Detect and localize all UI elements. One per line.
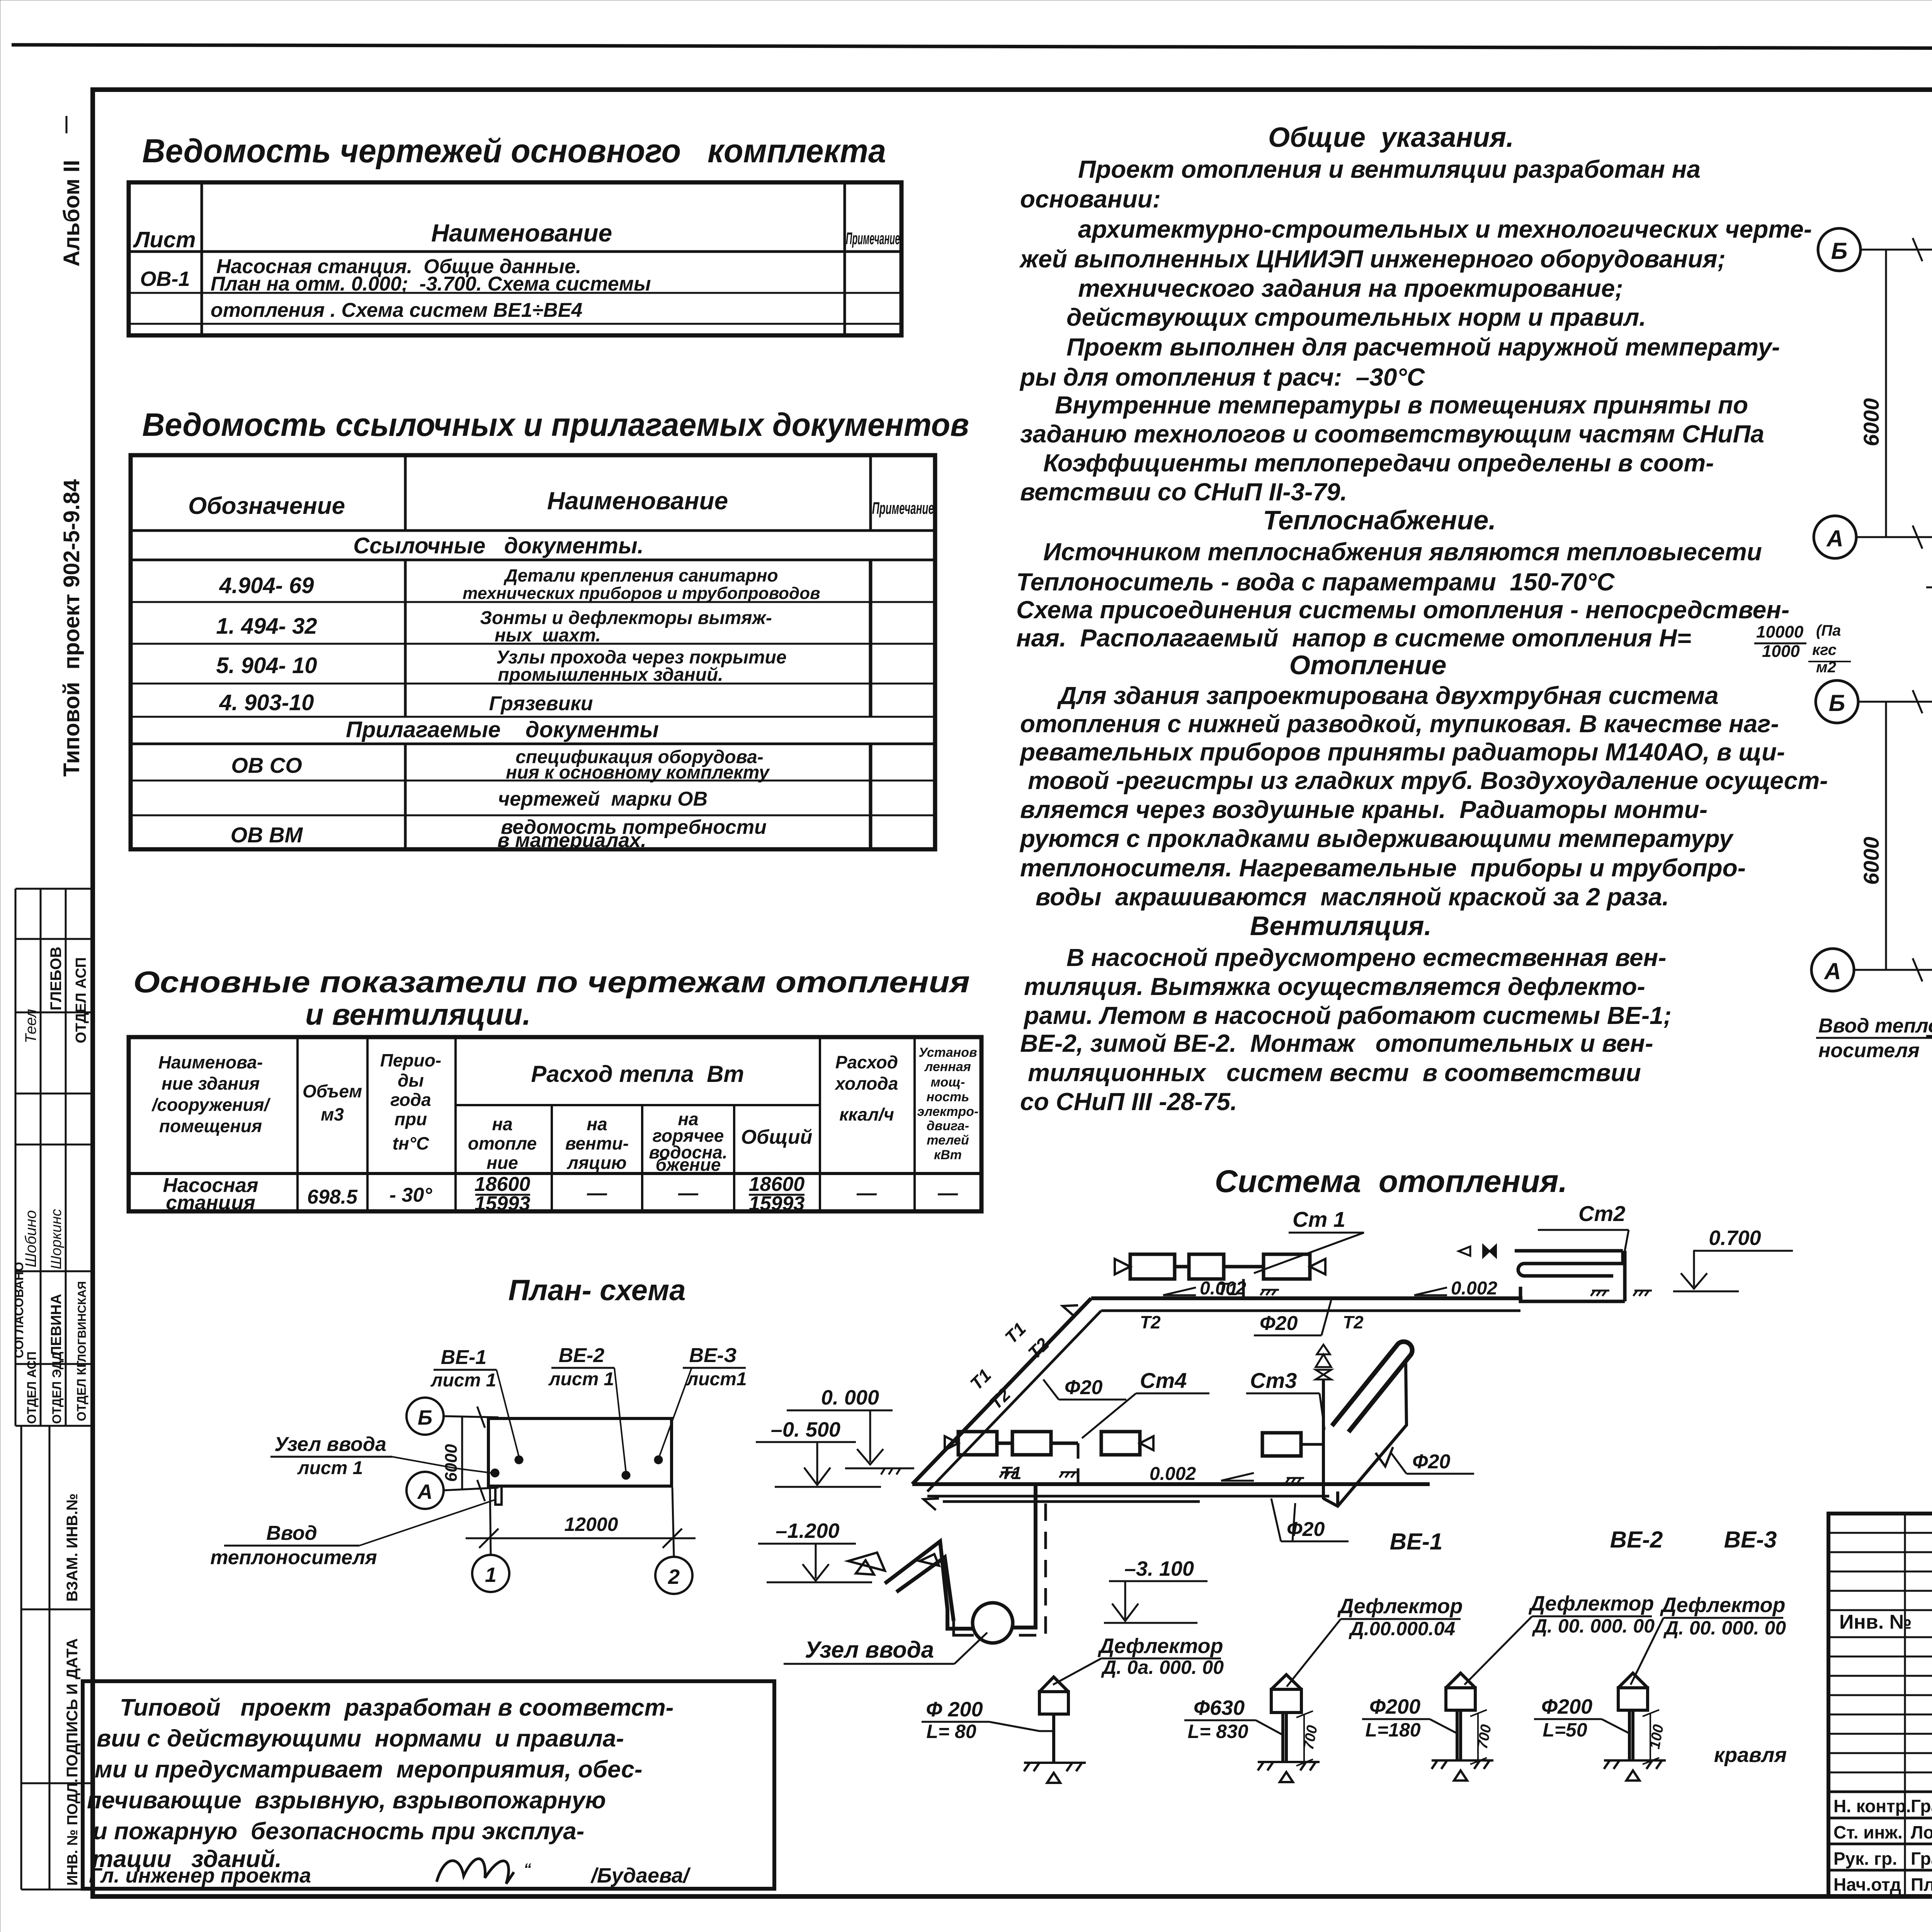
svg-text:Расход: Расход (835, 1052, 898, 1072)
svg-text:Дефлектор: Дефлектор (1097, 1634, 1223, 1658)
svg-text:Установ: Установ (918, 1045, 977, 1060)
plan2 axis A (1811, 949, 1854, 991)
svg-text:Проект отопления и вентиляции: Проект отопления и вентиляции разработан… (1078, 155, 1701, 183)
plan-skhema vvod entry mark (495, 1486, 502, 1505)
svg-text:ми и предусматривает мероприя: ми и предусматривает мероприятия, обес- (95, 1756, 643, 1783)
svg-text:А: А (1823, 958, 1841, 984)
signature rows (1833, 1796, 1932, 1895)
svg-text:6000: 6000 (1859, 398, 1883, 446)
svg-text:тиляционных систем вести в: тиляционных систем вести в соответствии (1028, 1059, 1641, 1087)
svg-text:года: года (390, 1090, 431, 1110)
axon: gate valve symbols on entry (848, 1553, 885, 1571)
svg-text:промышленных зданий.: промышленных зданий. (498, 665, 723, 685)
svg-text:холода: холода (834, 1073, 898, 1094)
svg-text:Т1: Т1 (966, 1365, 995, 1394)
svg-text:лист1: лист1 (686, 1369, 747, 1389)
svg-text:Теел: Теел (22, 1009, 39, 1043)
left margin stamp table (15, 889, 93, 1426)
svg-text:Шобино: Шобино (22, 1210, 39, 1267)
svg-text:Ф20: Ф20 (1065, 1376, 1103, 1399)
svg-text:6000: 6000 (1859, 837, 1883, 885)
svg-text:носителя: носителя (1818, 1039, 1920, 1062)
svg-text:L=50: L=50 (1543, 1719, 1587, 1741)
svg-text:кравля: кравля (1714, 1743, 1787, 1767)
svg-text:План на отм. 0.000; -3.700. С: План на отм. 0.000; -3.700. Схема систем… (211, 273, 651, 295)
svg-text:Основные показатели по чертежа: Основные показатели по чертежам отоплени… (133, 965, 970, 999)
svg-text:станция: станция (166, 1192, 255, 1214)
left margin bottom cells (21, 1426, 93, 1889)
svg-text:м3: м3 (321, 1104, 344, 1124)
svg-text:А: А (1826, 526, 1843, 551)
svg-text:—: — (678, 1182, 699, 1204)
svg-text:Наименование: Наименование (431, 219, 612, 247)
svg-text:Детали крепления санитарно: Детали крепления санитарно (503, 565, 778, 585)
svg-text:15993: 15993 (749, 1192, 805, 1215)
svg-text:ВЕ-2, зимой ВЕ-2. Монтаж от: ВЕ-2, зимой ВЕ-2. Монтаж отопительных и … (1020, 1029, 1653, 1057)
svg-text:Наименова-: Наименова- (158, 1052, 263, 1072)
axon: main diagonal T1 T2 down-left (912, 1298, 1091, 1484)
svg-text:вляется через воздушные краны.: вляется через воздушные краны. Радиаторы… (1020, 796, 1708, 823)
svg-text:лист 1: лист 1 (430, 1370, 497, 1391)
svg-text:5. 904- 10: 5. 904- 10 (216, 653, 317, 678)
svg-text:технического задания на проект: технического задания на проектирование; (1078, 274, 1623, 302)
svg-text:в материалах.: в материалах. (497, 829, 646, 852)
svg-text:электро-: электро- (917, 1104, 979, 1119)
plan1 axis A circle (1814, 516, 1856, 558)
svg-text:ОВ-1: ОВ-1 (140, 267, 190, 291)
axon: ground hatches at St2 (1591, 1291, 1652, 1296)
svg-text:ОТДЕЛ ЭДД: ОТДЕЛ ЭДД (50, 1352, 64, 1424)
svg-text:товой -регистры из гладких тру: товой -регистры из гладких труб. Воздухо… (1028, 767, 1828, 794)
svg-text:Источником теплоснабжения явля: Источником теплоснабжения являются тепло… (1043, 538, 1762, 566)
axon: upper T1 T2 mains (1091, 1296, 1522, 1300)
sheet top edge line (12, 45, 1932, 49)
svg-text:ПОДПИСЬ И ДАТА: ПОДПИСЬ И ДАТА (64, 1638, 81, 1777)
svg-text:лист 1: лист 1 (548, 1369, 614, 1389)
svg-text:Н. контр.: Н. контр. (1833, 1796, 1911, 1816)
svg-text:Ф200: Ф200 (1541, 1695, 1592, 1718)
svg-text:698.5: 698.5 (307, 1186, 358, 1208)
svg-text:Т2: Т2 (1024, 1334, 1053, 1363)
plan-skhema axis 2 (655, 1557, 692, 1594)
svg-text:лист 1: лист 1 (297, 1458, 363, 1478)
svg-text:при: при (395, 1109, 427, 1129)
svg-text:на: на (492, 1114, 512, 1134)
plan-skhema axis B (406, 1398, 444, 1435)
svg-text:Ст2: Ст2 (1578, 1201, 1625, 1226)
svg-text:4. 903-10: 4. 903-10 (219, 690, 314, 715)
svg-text:Прилагаемые документы: Прилагаемые документы (346, 717, 659, 742)
svg-text:(Па: (Па (1816, 622, 1841, 639)
svg-text:ность: ность (927, 1090, 969, 1104)
svg-text:двига-: двига- (927, 1119, 969, 1133)
svg-text:ОТДЕЛ АСП: ОТДЕЛ АСП (25, 1351, 39, 1424)
svg-text:0.002: 0.002 (1200, 1278, 1246, 1299)
svg-text:Альбом II: Альбом II (59, 160, 84, 267)
svg-text:Внутренние температуры в помещ: Внутренние температуры в помещениях прин… (1055, 391, 1748, 419)
svg-text:1000: 1000 (1762, 642, 1800, 661)
svg-text:Для здания запроектирована дву: Для здания запроектирована двухтрубная с… (1057, 682, 1719, 709)
svg-text:ОВ ВМ: ОВ ВМ (231, 823, 303, 847)
svg-text:Примечание: Примечание (846, 229, 900, 248)
svg-text:10000: 10000 (1756, 622, 1804, 641)
svg-text:Узел ввода: Узел ввода (274, 1433, 386, 1456)
svg-text:ния к основному комплекту: ния к основному комплекту (506, 762, 770, 783)
svg-text:Грязевики: Грязевики (489, 692, 593, 715)
svg-text:—: — (856, 1182, 877, 1204)
svg-text:вии с действующими нормами и: вии с действующими нормами и правила- (97, 1725, 624, 1752)
svg-text:Ф630: Ф630 (1194, 1696, 1245, 1719)
svg-text:Инв. №: Инв. № (1839, 1611, 1912, 1633)
plan1 6000 dim (1885, 250, 1887, 537)
svg-text:Теплоснабжение.: Теплоснабжение. (1263, 505, 1496, 535)
svg-text:ОВ СО: ОВ СО (231, 753, 302, 777)
svg-text:4.904- 69: 4.904- 69 (219, 573, 314, 598)
axon: inclined plane outline (1323, 1363, 1406, 1506)
svg-text:В насосной предусмотрено естес: В насосной предусмотрено естественная ве… (1066, 944, 1667, 971)
plan-skhema building rect (488, 1418, 672, 1486)
svg-text:L=180: L=180 (1365, 1719, 1420, 1741)
axon: St2 register coil (1515, 1251, 1625, 1301)
svg-text:архитектурно-строительных и те: архитектурно-строительных и технологичес… (1078, 215, 1812, 243)
plan-skhema dots (515, 1456, 523, 1464)
axon: St3 riser vertical (1322, 1379, 1325, 1499)
axon: lower radiators (958, 1432, 1140, 1455)
svg-text:ВЕ-2: ВЕ-2 (1610, 1527, 1663, 1553)
svg-text:ние: ние (486, 1153, 518, 1173)
axon: St3 radiator right (1262, 1433, 1301, 1456)
svg-text:“: “ (524, 1861, 531, 1878)
svg-text:Наименование: Наименование (547, 487, 728, 515)
title block left grid (1828, 1514, 1932, 1896)
plan1 axis B circle (1818, 228, 1861, 271)
svg-text:ОТДЕЛ КГ: ОТДЕЛ КГ (75, 1361, 88, 1421)
svg-text:Д.00.000.04: Д.00.000.04 (1349, 1618, 1455, 1639)
svg-text:Общие указания.: Общие указания. (1268, 122, 1514, 153)
svg-text:Ввод: Ввод (266, 1522, 317, 1544)
svg-text:ляцию: ляцию (566, 1153, 626, 1173)
svg-text:15993: 15993 (474, 1192, 531, 1215)
svg-text:6000: 6000 (442, 1444, 461, 1482)
svg-text:—: — (587, 1182, 607, 1204)
svg-text:и вентиляции.: и вентиляции. (305, 997, 531, 1031)
svg-text:тиляция. Вытяжка осуществляетс: тиляция. Вытяжка осуществляется дефлекто… (1024, 973, 1645, 1000)
svg-text:—: — (937, 1182, 958, 1204)
svg-text:ВЗАМ. ИНВ.№: ВЗАМ. ИНВ.№ (64, 1493, 81, 1602)
deflector 1 symbol (1039, 1677, 1068, 1763)
svg-text:2: 2 (668, 1565, 680, 1588)
svg-text:Объем: Объем (303, 1081, 362, 1101)
svg-text:Типовой проект 902-5-9.84: Типовой проект 902-5-9.84 (59, 479, 84, 777)
svg-text:L= 80: L= 80 (926, 1721, 976, 1742)
svg-text:ЛЕВИНА: ЛЕВИНА (48, 1294, 65, 1356)
svg-text:ВЕ-3: ВЕ-3 (1724, 1527, 1777, 1553)
svg-text:и пожарную безопасность при э: и пожарную безопасность при эксплуа- (93, 1818, 584, 1845)
svg-text:отопления с нижней разводкой,: отопления с нижней разводкой, тупиковая.… (1020, 710, 1779, 738)
svg-text:Шоркинс: Шоркинс (48, 1209, 65, 1269)
svg-text:ГЛЕБОВ: ГЛЕБОВ (48, 947, 65, 1010)
svg-text:отопления . Схема систем ВЕ1÷В: отопления . Схема систем ВЕ1÷ВЕ4 (211, 299, 582, 321)
svg-text:Ведомость ссылочных и прилагае: Ведомость ссылочных и прилагаемых докуме… (142, 406, 969, 443)
svg-text:Обозначение: Обозначение (188, 493, 345, 519)
svg-text:Примечание: Примечание (872, 499, 934, 518)
svg-text:А: А (417, 1480, 433, 1503)
axon: pipes from circle up to lower branch (1013, 1484, 1036, 1628)
svg-text:Т2: Т2 (985, 1384, 1014, 1413)
axon: upper radiator group (1130, 1254, 1310, 1279)
svg-text:жей выполненных ЦНИИЭП инженер: жей выполненных ЦНИИЭП инженерного обору… (1019, 245, 1726, 273)
svg-text:Общий: Общий (741, 1126, 813, 1148)
svg-text:Д. 00. 000. 00: Д. 00. 000. 00 (1532, 1615, 1655, 1637)
svg-text:бжение: бжение (656, 1155, 721, 1175)
svg-text:Дефлектор: Дефлектор (1337, 1595, 1463, 1618)
signature squiggle (437, 1859, 514, 1884)
svg-text:Д. 00. 000. 00: Д. 00. 000. 00 (1663, 1617, 1786, 1639)
axon: entry zigzag pipes (885, 1541, 954, 1621)
axon: uzel vvoda circle (973, 1603, 1013, 1643)
svg-text:0.002: 0.002 (1150, 1464, 1196, 1484)
svg-text:ние здания: ние здания (162, 1073, 260, 1094)
svg-text:Дефлектор: Дефлектор (1660, 1594, 1785, 1617)
svg-text:Т2: Т2 (1343, 1312, 1364, 1332)
svg-text:Рук. гр.: Рук. гр. (1833, 1849, 1897, 1869)
svg-text:Типовой проект разработан в: Типовой проект разработан в соответст- (120, 1694, 673, 1721)
svg-text:Расход тепла Вт: Расход тепла Вт (531, 1061, 744, 1087)
svg-text:Д. 0а. 000. 00: Д. 0а. 000. 00 (1101, 1656, 1224, 1678)
plan-skhema 6000 dim (461, 1416, 463, 1490)
svg-text:технических приборов и трубопр: технических приборов и трубопроводов (463, 584, 820, 603)
plan-skhema 12000 dim (466, 1537, 696, 1539)
svg-text:ВЕ-2: ВЕ-2 (559, 1344, 605, 1367)
svg-text:Теплоноситель - вода с парамет: Теплоноситель - вода с параметрами 150-7… (1016, 568, 1615, 596)
svg-text:Узел ввода: Узел ввода (805, 1637, 934, 1663)
svg-text:печивающие взрывную, взрывопо: печивающие взрывную, взрывопожарную (87, 1787, 606, 1814)
svg-text:Ст4: Ст4 (1140, 1368, 1187, 1393)
svg-text:кгс: кгс (1812, 641, 1837, 658)
svg-text:Отопление: Отопление (1289, 650, 1447, 680)
table 3 grid (129, 1037, 981, 1211)
svg-text:План- схема: План- схема (509, 1274, 686, 1307)
svg-text:Ф20: Ф20 (1260, 1312, 1298, 1335)
svg-text:Логинова: Логинова (1911, 1822, 1932, 1842)
plan2 axis B (1816, 680, 1858, 723)
svg-text:венти-: венти- (565, 1133, 629, 1153)
svg-text:Грачева: Грачева (1911, 1796, 1932, 1816)
table 1 grid (129, 182, 901, 335)
svg-text:со СНиП III -28-75.: со СНиП III -28-75. (1020, 1088, 1237, 1116)
svg-text:Ст3: Ст3 (1250, 1368, 1297, 1393)
svg-text:ных шахт.: ных шахт. (495, 625, 601, 646)
svg-text:отопле: отопле (468, 1133, 537, 1153)
svg-text:Ввод тепло-: Ввод тепло- (1818, 1015, 1932, 1037)
svg-text:Дефлектор: Дефлектор (1528, 1592, 1654, 1615)
svg-text:воды акрашиваются масляной к: воды акрашиваются масляной краской за 2 … (1036, 883, 1669, 911)
svg-text:теплоносителя: теплоносителя (210, 1546, 377, 1569)
axon: St2 valves left (1483, 1245, 1496, 1257)
svg-text:Ст 1: Ст 1 (1293, 1207, 1345, 1231)
svg-text:ры для отопления t расч: –30°: ры для отопления t расч: –30°С (1019, 363, 1425, 391)
svg-text:ВЕ-1: ВЕ-1 (1390, 1529, 1443, 1554)
svg-text:ветствии со СНиП II-3-79.: ветствии со СНиП II-3-79. (1020, 478, 1347, 506)
svg-text:Коэффициенты теплопередачи опр: Коэффициенты теплопередачи определены в … (1043, 449, 1714, 477)
table 2 grid (131, 455, 935, 849)
svg-text:Схема присоединения системы от: Схема присоединения системы отопления - … (1016, 596, 1789, 624)
svg-text:ная. Располагаемый напор в с: ная. Располагаемый напор в системе отопл… (1016, 624, 1691, 652)
svg-text:ды: ды (398, 1070, 424, 1090)
svg-text:ЛОГВИНСКАЯ: ЛОГВИНСКАЯ (76, 1281, 88, 1362)
svg-text:помещения: помещения (159, 1116, 262, 1136)
svg-text:теплоносителя. Нагревательные: теплоносителя. Нагревательные приборы и … (1020, 854, 1746, 882)
axon: air valve on St3 riser top (1316, 1370, 1331, 1379)
deflector 4 symbol (1618, 1673, 1648, 1760)
svg-text:Т2: Т2 (1140, 1312, 1161, 1332)
axon: inclined register St3 hairpin (1332, 1342, 1412, 1432)
svg-text:Платонов: Платонов (1911, 1874, 1932, 1895)
svg-text:Ссылочные документы.: Ссылочные документы. (353, 533, 644, 558)
svg-text:СОГЛАСОВАНО: СОГЛАСОВАНО (12, 1262, 26, 1358)
svg-text:–0. 500: –0. 500 (771, 1418, 840, 1441)
svg-text:0.002: 0.002 (1451, 1278, 1497, 1299)
svg-text:- 30°: - 30° (389, 1184, 433, 1206)
svg-text:ИНВ. № ПОДЛ.: ИНВ. № ПОДЛ. (65, 1779, 81, 1886)
svg-text:Ф200: Ф200 (1369, 1695, 1420, 1718)
deflector 2 symbol (1271, 1675, 1301, 1762)
table 3 header texts (151, 1045, 979, 1175)
svg-text:рами. Летом в насосной работаю: рами. Летом в насосной работают системы … (1023, 1002, 1672, 1029)
svg-text:действующих строительных норм: действующих строительных норм и правил. (1066, 303, 1646, 331)
svg-text:Ст. инж.: Ст. инж. (1833, 1822, 1903, 1842)
svg-text:Б: Б (1831, 238, 1847, 264)
plan-skhema axis 1 (472, 1555, 509, 1592)
svg-text:Нач.отд: Нач.отд (1833, 1874, 1901, 1895)
svg-text:–3. 100: –3. 100 (1124, 1557, 1194, 1580)
svg-text:Ф 200: Ф 200 (926, 1698, 983, 1721)
plan1 12000 dim line (1926, 587, 1932, 588)
svg-text:заданию технологов и соответст: заданию технологов и соответствующим час… (1020, 420, 1764, 448)
svg-text:ленная: ленная (924, 1060, 971, 1074)
svg-text:Система отопления.: Система отопления. (1215, 1164, 1568, 1199)
svg-text:чертежей марки ОВ: чертежей марки ОВ (498, 788, 707, 810)
svg-text:1. 494- 32: 1. 494- 32 (216, 614, 317, 639)
svg-text:Гл. инженер проекта: Гл. инженер проекта (89, 1864, 311, 1887)
svg-text:Б: Б (418, 1406, 432, 1429)
plan2 6000 dim (1885, 702, 1887, 970)
svg-text:Б: Б (1829, 690, 1845, 716)
axon: lower ground hatches (1000, 1472, 1304, 1483)
svg-text:L= 830: L= 830 (1187, 1721, 1248, 1742)
svg-text:Лист: Лист (133, 227, 196, 252)
svg-text:телей: телей (927, 1133, 969, 1148)
svg-text:основании:: основании: (1020, 185, 1161, 213)
axon: ground hatch marks upper (1260, 1290, 1279, 1295)
svg-text:ревательных приборов приняты р: ревательных приборов приняты радиаторы М… (1019, 738, 1785, 766)
svg-text:на: на (587, 1114, 607, 1134)
svg-text:Перио-: Перио- (380, 1050, 441, 1070)
svg-text:0.700: 0.700 (1709, 1226, 1761, 1250)
svg-text:ВЕ-З: ВЕ-З (689, 1344, 737, 1367)
svg-text:Вентиляция.: Вентиляция. (1250, 911, 1432, 941)
svg-text:tн°С: tн°С (393, 1133, 429, 1153)
axon: lower branch mains (912, 1482, 1430, 1486)
svg-text:Т1: Т1 (1001, 1318, 1030, 1347)
plan-skhema axis A (406, 1472, 444, 1509)
deflector 3 symbol (1446, 1673, 1475, 1760)
svg-text:кВт: кВт (934, 1148, 962, 1162)
svg-text:Грачева: Грачева (1911, 1849, 1932, 1869)
svg-text:/сооружения/: /сооружения/ (151, 1095, 271, 1115)
svg-text:Ф20: Ф20 (1412, 1451, 1451, 1473)
svg-text:1: 1 (485, 1563, 497, 1587)
svg-text:мощ-: мощ- (930, 1075, 965, 1090)
svg-text:12000: 12000 (564, 1514, 618, 1535)
svg-text:Ведомость чертежей основного: Ведомость чертежей основного комплекта (142, 133, 886, 170)
plan2 12000 dim (1926, 1035, 1932, 1037)
svg-text:ВЕ-1: ВЕ-1 (441, 1346, 486, 1369)
svg-text:/Будаева/: /Будаева/ (590, 1864, 691, 1887)
svg-text:руются с прокладками выдержива: руются с прокладками выдерживающими темп… (1019, 825, 1734, 852)
svg-text:Проект выполнен для расчетной: Проект выполнен для расчетной наружной т… (1066, 333, 1780, 361)
svg-text:ОТДЕЛ АСП: ОТДЕЛ АСП (73, 957, 89, 1043)
svg-text:ккал/ч: ккал/ч (839, 1104, 894, 1124)
table 3 data row (163, 1173, 958, 1215)
svg-text:0. 000: 0. 000 (821, 1386, 879, 1409)
svg-text:–1.200: –1.200 (776, 1519, 839, 1543)
